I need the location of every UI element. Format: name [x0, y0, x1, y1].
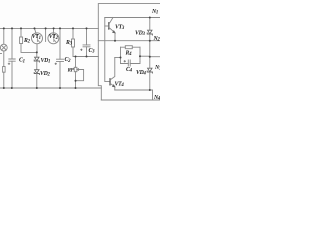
svg-text:VD2: VD2 — [40, 71, 50, 78]
svg-text:N2: N2 — [153, 36, 161, 43]
svg-text:VD4: VD4 — [136, 70, 146, 77]
svg-text:VT4: VT4 — [115, 82, 125, 89]
svg-text:VT3: VT3 — [115, 25, 125, 32]
svg-text:R2: R2 — [23, 38, 31, 45]
svg-text:C2: C2 — [65, 57, 72, 64]
svg-text:N1: N1 — [151, 9, 158, 16]
svg-text:VD1: VD1 — [41, 58, 51, 65]
svg-text:N4: N4 — [153, 95, 160, 102]
svg-text:VD3: VD3 — [135, 31, 145, 38]
svg-text:R4: R4 — [125, 51, 133, 58]
svg-text:C3: C3 — [89, 48, 96, 55]
svg-text:C4: C4 — [126, 67, 133, 74]
svg-text:VT2: VT2 — [49, 34, 59, 41]
svg-text:VT1: VT1 — [32, 34, 41, 41]
svg-text:N3: N3 — [154, 65, 160, 72]
svg-text:R3: R3 — [65, 40, 73, 47]
svg-text:C1: C1 — [19, 58, 25, 65]
